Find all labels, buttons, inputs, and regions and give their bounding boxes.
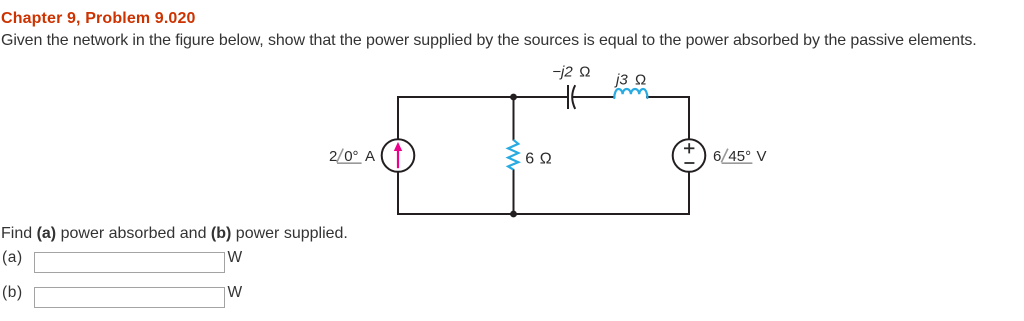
unit W for (b) [228,284,243,302]
current source label 2 angle 0 A [329,148,375,165]
svg-text:V: V [757,148,767,165]
node: top junction dot [510,94,517,101]
unit W for (a) [228,249,243,267]
svg-text:j3: j3 [614,72,628,89]
svg-text:2: 2 [329,148,337,165]
svg-text:Ω: Ω [540,151,552,168]
row (b) label [2,284,23,302]
voltage source minus sign [684,162,694,164]
row (a) label [2,249,23,267]
svg-text:A: A [365,148,375,165]
capacitor C (-j2 ohm) [568,85,575,109]
node: bottom junction dot [510,211,517,218]
wire: inductor to top-right corner [646,96,690,98]
wire: left vertical above current source [397,96,399,140]
svg-text:6: 6 [713,148,721,165]
wire: right vertical above voltage source [688,96,690,140]
wire: top from left corner to capacitor [398,96,568,98]
wire: right vertical below voltage source [688,171,690,215]
title [1,10,196,28]
wire: middle branch above resistor [513,97,515,141]
problem statement [1,32,977,50]
voltage source V1 circle [673,139,706,172]
wire: middle branch below resistor [513,169,515,214]
find prompt [1,225,348,243]
input box (a) [34,252,225,274]
wire: left vertical below current source [397,171,399,215]
svg-text:Ω: Ω [635,72,646,89]
input box (b) [34,287,225,309]
svg-text:6: 6 [525,151,534,168]
inductor L (j3 ohm) [614,89,647,98]
voltage source label 6 angle 45 V [713,148,767,165]
resistor R (6 ohm) [508,140,518,170]
current source arrow (magenta) [397,150,399,168]
wire: capacitor to inductor [573,96,616,98]
wire: bottom rail [397,213,690,215]
voltage source plus sign [684,143,694,163]
current source I1 circle [382,139,415,172]
svg-text:Ω: Ω [579,64,590,81]
svg-text:−j2: −j2 [552,64,573,81]
